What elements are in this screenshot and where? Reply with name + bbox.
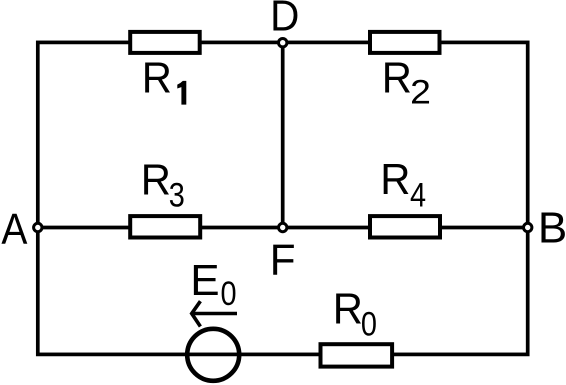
resistor R4 box (370, 216, 440, 237)
resistor R3 box (130, 216, 200, 237)
resistor R2 box (370, 32, 440, 53)
svg-text:R: R (141, 156, 171, 205)
label R2 (382, 53, 412, 102)
label R3 (141, 156, 171, 205)
svg-text:0: 0 (361, 304, 377, 343)
label A (1, 204, 27, 254)
svg-text:D: D (270, 0, 299, 40)
svg-text:B: B (538, 203, 566, 252)
wire middle A-F-B (38, 226, 528, 230)
label E0 (190, 256, 219, 305)
svg-text:3: 3 (169, 175, 185, 214)
E0 arrow (192, 301, 237, 326)
label R1 (142, 53, 172, 102)
resistor R0 box (321, 344, 393, 366)
svg-text:R: R (333, 284, 363, 333)
node B terminal (524, 223, 532, 231)
label R0 (333, 284, 363, 333)
resistor R1 box (130, 32, 200, 53)
label F (270, 236, 296, 285)
label B (538, 203, 566, 252)
svg-text:A: A (1, 204, 27, 254)
node D terminal (279, 39, 287, 47)
wire outer loop (left / top / right / bottom) (38, 42, 528, 354)
svg-text:R: R (142, 53, 172, 102)
svg-text:0: 0 (221, 274, 237, 313)
voltage source E0 circle (187, 329, 239, 381)
node F terminal (279, 223, 287, 231)
svg-text:F: F (270, 236, 296, 285)
svg-text:R: R (380, 155, 410, 204)
svg-text:2: 2 (410, 73, 431, 111)
svg-text:R: R (382, 53, 412, 102)
label R4 (380, 155, 410, 204)
node A terminal (34, 223, 42, 231)
wire D-F vertical (281, 42, 285, 227)
svg-text:4: 4 (410, 175, 426, 214)
svg-text:E: E (190, 256, 219, 305)
label D (270, 0, 299, 40)
